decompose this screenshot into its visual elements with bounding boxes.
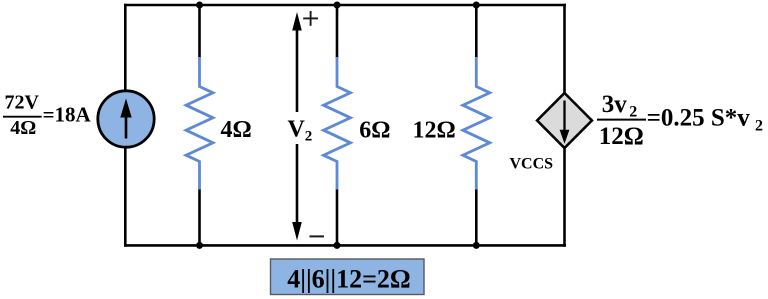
wire right branch top (VCCS top lead)	[563, 4, 566, 95]
svg-text:6Ω: 6Ω	[359, 118, 390, 144]
wire left branch bottom (source bottom lead)	[124, 146, 127, 247]
svg-text:12Ω: 12Ω	[413, 118, 456, 144]
svg-text:4Ω: 4Ω	[221, 117, 252, 143]
node dot top of 6Ω branch	[334, 2, 341, 9]
current source I1 18A	[98, 91, 154, 147]
node dot bottom of 6Ω branch	[334, 242, 341, 249]
svg-text:=0.25 S*v: =0.25 S*v	[647, 105, 751, 132]
label 6Ω	[359, 118, 390, 144]
label − polarity sign	[310, 235, 325, 237]
label source value 72V/4Ω=18A	[3, 92, 92, 139]
svg-text:2: 2	[629, 103, 637, 120]
svg-text:72V: 72V	[5, 92, 40, 114]
wire bottom horizontal	[124, 244, 566, 247]
label 12Ω	[413, 118, 456, 144]
svg-text:VCCS: VCCS	[510, 155, 554, 172]
dependent source VCCS (diamond)	[537, 93, 592, 148]
label + polarity sign	[303, 11, 318, 26]
node dot bottom of 4Ω branch	[196, 242, 203, 249]
resistor 12Ω	[463, 57, 490, 190]
svg-text:3v: 3v	[602, 91, 628, 118]
label VCCS	[510, 155, 554, 172]
svg-text:2: 2	[305, 129, 313, 145]
wire 12Ω branch bottom stub	[475, 190, 478, 246]
wire 4Ω branch bottom stub	[198, 190, 201, 246]
node dot bottom of 12Ω branch	[473, 242, 480, 249]
wire 12Ω branch top stub	[475, 5, 478, 58]
node dot top of 12Ω branch	[473, 2, 480, 9]
svg-text:V: V	[288, 117, 306, 143]
svg-text:4Ω: 4Ω	[10, 117, 36, 139]
wire left branch top (source top lead)	[124, 4, 127, 92]
resistor 4Ω	[186, 57, 213, 190]
label 4Ω	[221, 117, 252, 143]
svg-text:4||6||12=2Ω: 4||6||12=2Ω	[287, 265, 411, 294]
node dot top of 4Ω branch	[196, 2, 203, 9]
wire top horizontal	[124, 4, 566, 7]
svg-text:2: 2	[755, 118, 763, 135]
svg-text:12Ω: 12Ω	[599, 123, 644, 150]
wire right branch bottom (VCCS bottom lead)	[563, 146, 566, 247]
wire 6Ω branch bottom stub	[336, 190, 339, 246]
label V2	[288, 117, 313, 145]
voltage arrow V2 (double-headed)	[292, 12, 302, 241]
equivalent resistance callout box 4||6||12=2Ω	[271, 259, 425, 295]
svg-text:=18A: =18A	[43, 102, 92, 126]
wire 6Ω branch top stub	[336, 5, 339, 58]
label VCCS value 3v2/12Ω=0.25 S*v2	[597, 91, 763, 150]
resistor 6Ω	[324, 57, 351, 190]
wire 4Ω branch top stub	[198, 5, 201, 58]
